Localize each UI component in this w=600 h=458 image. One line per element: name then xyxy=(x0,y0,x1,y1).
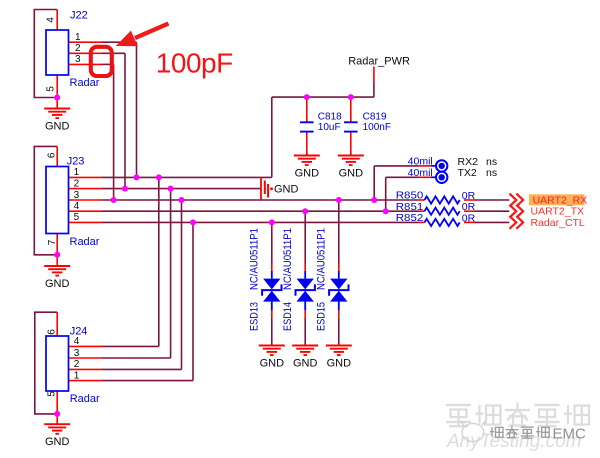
svg-text:R852: R852 xyxy=(396,212,424,224)
svg-text:GND: GND xyxy=(274,183,299,195)
svg-text:2: 2 xyxy=(75,43,81,54)
svg-text:ESD14: ESD14 xyxy=(282,302,294,331)
svg-text:4: 4 xyxy=(46,17,57,23)
svg-text:Radar: Radar xyxy=(70,393,100,405)
svg-text:0R: 0R xyxy=(462,190,476,202)
svg-text:1: 1 xyxy=(74,167,80,178)
svg-text:3: 3 xyxy=(74,348,80,359)
svg-text:GND: GND xyxy=(45,436,70,448)
svg-text:J23: J23 xyxy=(67,155,85,167)
svg-text:100pF: 100pF xyxy=(156,48,233,79)
svg-text:GND: GND xyxy=(260,358,285,370)
svg-text:GND: GND xyxy=(45,121,70,133)
svg-text:100nF: 100nF xyxy=(363,122,391,133)
svg-text:UART2_RX: UART2_RX xyxy=(533,194,588,206)
svg-text:NC/AU0511P1: NC/AU0511P1 xyxy=(249,228,261,290)
svg-text:ESD13: ESD13 xyxy=(249,302,261,331)
svg-text:1: 1 xyxy=(75,32,81,43)
svg-text:6: 6 xyxy=(47,152,58,158)
svg-text:7: 7 xyxy=(47,239,58,245)
svg-text:5: 5 xyxy=(47,391,58,397)
svg-text:3: 3 xyxy=(75,54,81,65)
svg-text:GND: GND xyxy=(327,358,352,370)
svg-text:ns: ns xyxy=(486,156,497,168)
svg-text:Radar_PWR: Radar_PWR xyxy=(348,55,410,67)
svg-text:R851: R851 xyxy=(396,201,424,213)
svg-text:Radar: Radar xyxy=(70,77,100,89)
svg-text:UART2_TX: UART2_TX xyxy=(531,206,585,218)
svg-text:5: 5 xyxy=(74,212,80,223)
svg-text:6: 6 xyxy=(47,329,58,335)
svg-text:0R: 0R xyxy=(462,201,476,213)
svg-text:40mil: 40mil xyxy=(408,167,433,179)
svg-text:EMC: EMC xyxy=(553,426,587,443)
svg-text:GND: GND xyxy=(45,278,70,290)
svg-text:2: 2 xyxy=(74,178,80,189)
svg-text:0R: 0R xyxy=(462,212,476,224)
svg-text:4: 4 xyxy=(74,201,80,212)
svg-text:R850: R850 xyxy=(396,190,424,202)
svg-text:J22: J22 xyxy=(70,10,88,22)
svg-text:10uF: 10uF xyxy=(318,122,341,133)
svg-text:ns: ns xyxy=(486,167,497,179)
svg-text:2: 2 xyxy=(74,359,80,370)
svg-text:GND: GND xyxy=(339,168,364,180)
svg-text:Radar_CTL: Radar_CTL xyxy=(531,217,585,229)
svg-text:4: 4 xyxy=(74,336,80,347)
svg-text:3: 3 xyxy=(74,190,80,201)
svg-text:1: 1 xyxy=(74,370,80,381)
svg-text:Radar: Radar xyxy=(70,236,100,248)
svg-text:GND: GND xyxy=(293,358,318,370)
svg-text:40mil: 40mil xyxy=(408,156,433,168)
svg-text:TX2: TX2 xyxy=(458,167,477,179)
svg-text:ESD15: ESD15 xyxy=(316,302,328,331)
svg-text:5: 5 xyxy=(46,86,57,92)
svg-text:NC/AU0511P1: NC/AU0511P1 xyxy=(282,228,294,290)
svg-text:NC/AU0511P1: NC/AU0511P1 xyxy=(316,228,328,290)
svg-text:RX2: RX2 xyxy=(458,156,479,168)
svg-text:GND: GND xyxy=(295,168,320,180)
